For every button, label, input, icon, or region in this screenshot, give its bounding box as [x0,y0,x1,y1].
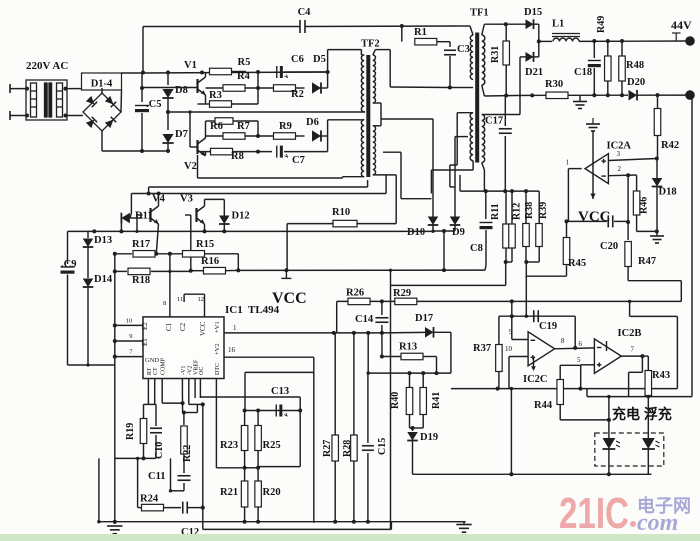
resistor R8 [211,148,233,155]
resistor R47 [625,242,632,267]
wire rail72 [122,72,144,74]
wire R1-C3 [437,41,450,43]
transformer TF2 core [366,55,370,177]
transformer TF2 secondary lower [373,126,376,175]
wire pin stub x195.1 [194,379,196,391]
wire R15 drop [237,254,239,271]
svg-text:R10: R10 [332,207,350,218]
wire R11 top [505,191,507,224]
wire top rail right [305,25,457,28]
junction [411,426,415,430]
svg-text:V1: V1 [184,60,197,71]
svg-text:R13: R13 [399,342,417,353]
wire DTC col [215,390,217,468]
wire gnd main stub [463,522,465,525]
wire IC2B pin5 [581,364,595,366]
junction [380,355,384,359]
wire D13 top [87,231,89,238]
wire R4-R2 [245,87,273,89]
resistor R19 [140,419,147,444]
svg-text:R45: R45 [568,258,586,269]
wire comp link [162,402,182,404]
wire R37 bottom [498,372,500,389]
svg-text:充电 浮充: 充电 浮充 [612,406,672,422]
junction [298,409,302,413]
wire col382 [381,333,383,357]
junction [366,520,370,524]
wire y458 [115,457,156,459]
wire box372 [245,371,314,373]
wire node TF2 bottom [327,120,329,152]
wire bridge bottom [101,131,103,151]
svg-text:C11: C11 [148,471,166,482]
wire V2 collector [205,121,207,138]
svg-text:R12: R12 [512,203,523,220]
junction [166,110,170,114]
wire R2-D5 [296,87,305,89]
wire rail388 [451,388,678,390]
wire C8 bottom [485,230,487,265]
svg-text:6: 6 [579,340,583,348]
diode D5 [312,82,321,93]
wire V4 collector up [158,194,160,207]
svg-text:R31: R31 [490,46,501,63]
svg-text:11: 11 [177,296,183,303]
terminal tick [672,33,681,41]
junction [135,230,138,233]
svg-text:D8: D8 [175,85,188,96]
svg-text:C20: C20 [600,241,618,252]
wire R48 top [621,41,623,56]
svg-text:D6: D6 [306,117,319,128]
svg-text:D17: D17 [415,313,433,324]
resistor R9 [274,133,296,140]
svg-text:R25: R25 [263,440,281,451]
wire D6 out [321,135,328,137]
wire D21 riser2 [538,41,540,57]
wire D21 out [534,56,539,58]
wire TF2 return 1 up [342,177,344,178]
wire [10,115,27,117]
wire bus193 [131,193,386,195]
svg-text:R42: R42 [661,140,679,151]
wire V1 collector [205,73,207,78]
wire C9 top [67,231,69,264]
wire zig5 drop [676,316,678,388]
wire y467 link [216,467,244,469]
wire C3 bottom [449,56,451,88]
svg-text:220V AC: 220V AC [26,60,68,72]
junction [157,192,161,196]
capacitor C8 [480,223,493,230]
svg-text:C6: C6 [291,54,304,65]
transformer TF1 core [475,33,479,163]
wire D5 out [321,87,328,89]
wire to L1 [539,40,552,42]
svg-text:R39: R39 [538,202,549,219]
wire pin9 [115,340,143,342]
svg-text:1: 1 [233,324,237,332]
wire R22 top [183,413,185,426]
junction [352,520,356,524]
svg-text:R8: R8 [231,151,244,162]
wire pin9 riser [511,316,513,339]
wire pin stub x148.4 [147,379,149,391]
wire V2 base stub [190,146,198,148]
wire R8 left [198,151,211,153]
junction [578,387,582,391]
wire D17 out [434,331,451,333]
wire V3 collector up [204,199,206,206]
wire R24 riser [137,458,139,507]
capacitor C12 [183,502,188,514]
wire V2 emitter down [197,155,199,178]
svg-text:12: 12 [198,296,205,303]
svg-text:TF1: TF1 [470,8,489,19]
wire R21 bottom [244,507,246,522]
wire D17 drop [450,332,452,373]
junction [380,299,384,303]
svg-text:R37: R37 [473,343,491,354]
wire R44 link [560,364,581,366]
wire top rail left [143,26,300,28]
svg-text:CT: CT [153,367,159,375]
wire R11 bottom [505,248,507,262]
wire R42 top [657,95,659,108]
wire R6 left [206,120,216,122]
capacitor C14 [375,318,388,323]
wire R11R12 join [506,261,512,263]
wire D10-D9 [433,230,455,232]
wire col511 down [510,389,512,475]
wire R38 top [525,191,527,224]
svg-text:L1: L1 [552,19,564,30]
svg-text:9: 9 [129,333,132,340]
resistor R38 [523,224,530,247]
wire D12 bottom [223,224,225,231]
diode D7 [162,134,173,143]
svg-text:V3: V3 [180,194,193,205]
dashed indicator box [595,433,664,466]
svg-text:R30: R30 [545,79,563,90]
wire R18 left [115,270,127,272]
wire R40 bottom [409,415,411,428]
junction [565,219,569,223]
resistor R30 [546,92,568,99]
wire V3 base stub [185,214,191,216]
wire pin stub x154.7 [154,379,156,391]
svg-text:D18: D18 [659,187,677,198]
svg-text:com: com [637,510,678,536]
junction [525,315,528,318]
resistor R10 [333,220,357,227]
wire V3 emitter drop [204,224,206,231]
wire out corner [642,355,648,357]
wire [102,150,142,152]
wire C5 bottom [141,113,143,151]
wire R49 bottom [607,81,609,95]
wire OC line [200,396,300,398]
wire D7 bottom [167,143,169,151]
wire out loop drop2 [628,372,630,396]
wire IC2B out [621,355,642,357]
svg-text:VCC: VCC [199,321,207,336]
wire pin stub x188.8 [188,379,190,391]
wire TF2 p1 stub [360,50,362,55]
wire R12 bottom [511,248,513,262]
svg-text:R48: R48 [626,60,644,71]
wire LED1 bottom [608,449,610,474]
bridge diode D2 [105,96,116,107]
wire pin10 drop [508,357,510,389]
wire D14 bottom [87,287,89,365]
wire R23-R21 [244,451,246,481]
svg-text:R5: R5 [238,57,251,68]
wire zig4 across [630,315,678,317]
wire TF1 p top [457,25,470,27]
wire [10,88,27,90]
capacitor C15 [362,446,374,451]
wire col526 [525,262,527,316]
wire R42 bottom [657,136,659,159]
resistor R13 [401,353,423,360]
svg-text:R19: R19 [125,423,136,440]
capacitor C6 [277,66,288,78]
wire D18 top [656,159,658,179]
junction [189,269,193,273]
wire R25 top [257,411,259,427]
wire VCC rail [238,269,485,271]
junction [97,520,100,523]
wire V2 base riser [189,112,191,147]
wire TF2 s1 stub [373,50,376,55]
wire pin11-12 [184,293,204,295]
diode D18 [652,178,663,187]
svg-text:D15: D15 [524,7,542,18]
transistor V1 [198,77,206,95]
wire zig2 [680,281,682,302]
wire 0V left [515,94,546,96]
wire c11 riser [170,458,172,490]
wire [142,150,168,152]
wire RT col [147,390,149,404]
transistor V4 [151,206,159,224]
resistor R6 [215,118,233,125]
junction [628,300,631,303]
transformer TF2 primary lower [361,120,364,177]
junction [574,347,576,349]
wire column313 [313,357,315,523]
wire R38R39 join [526,261,539,263]
wire TF1 s2 to D21 [484,114,520,116]
wire R6 down [257,121,259,136]
wire y467 extension [258,466,300,468]
svg-text:D21: D21 [525,67,543,78]
junction [530,93,534,97]
wire TF1 p top stub [470,26,473,35]
junction [509,472,513,476]
wire out loop drop [641,356,643,372]
svg-text:+V2: +V2 [214,343,221,355]
junction [92,229,96,233]
svg-text:.C5: .C5 [146,99,161,110]
svg-text:R18: R18 [132,275,150,286]
svg-text:R7: R7 [237,121,250,132]
transformer TF1 primary lower [470,113,473,161]
capacitor C17 [499,129,512,134]
junction [327,87,329,89]
wire pin C1 top [169,254,171,317]
wire D15 drop [538,24,540,41]
svg-text:IC2B: IC2B [618,328,642,339]
junction [524,260,528,264]
inductor L1 [553,38,579,41]
wire IC2C power pin [533,357,535,369]
wire TF1 s2 top stub [482,114,485,116]
wire col99 [98,458,100,521]
resistor R15 [183,251,205,257]
wire R18 right [151,270,191,272]
wire bus link [148,187,150,194]
wire column390 [390,270,392,529]
wire R39 bottom [538,246,540,262]
wire R13 right [423,356,437,358]
wire D12 top [223,199,225,215]
wire R41 bottom [422,415,424,428]
diode D15 [526,19,534,29]
svg-text:D19: D19 [420,432,438,443]
wire right edge column [691,95,693,397]
AC input terminal top [9,84,11,93]
svg-text:C3: C3 [457,44,470,55]
wire vref drop [196,404,198,412]
wire C11 bottom [183,483,185,491]
junction [256,70,260,74]
wire C15 top [367,373,369,443]
wire bridge right to box [120,90,123,112]
wire R19C10 bracket [144,403,157,405]
resistor R16 [204,267,226,274]
wire C10 bottom [155,435,157,458]
wire R8-C7 [233,151,272,153]
wire R1 drop [401,26,403,42]
svg-text:5: 5 [577,356,581,364]
junction [243,466,247,470]
wire R7-R9 [245,135,273,137]
bridge diode D4 [105,117,116,128]
diode D11 [121,213,129,224]
svg-text:C15: C15 [377,438,388,455]
wire R15 right [204,253,238,255]
wire D11 down [120,218,122,231]
wire VCC riser [443,231,445,270]
wire R16 left [191,270,204,272]
wire D15 out [534,23,539,25]
junction [222,229,226,233]
svg-text:E1: E1 [141,338,149,346]
resistor R12 [509,224,516,248]
svg-text:R29: R29 [393,288,411,299]
svg-text:D20: D20 [627,77,645,88]
ground 0V [573,102,587,109]
svg-text:V2: V2 [184,161,197,172]
junction [484,189,488,193]
junction [188,110,191,113]
capacitor C10 [150,428,162,433]
junction [113,323,117,327]
wire rail link [390,522,392,530]
junction [256,520,260,524]
wire R46 top [636,175,638,191]
junction [182,411,186,415]
op-amp IC2B [594,339,621,374]
wire R41 top [422,373,424,388]
bridge diode D1 [86,96,97,107]
wire R9-D6 [296,135,305,137]
junction [448,86,452,90]
wire y285 [391,284,506,286]
junction [154,252,158,256]
resistor R23 [241,426,248,451]
svg-text:R1: R1 [414,27,427,38]
wire TF2 s1 drop [389,50,391,87]
wire to TF2 primary lower [328,119,362,121]
wire R13 left [382,356,401,358]
resistor R31 [503,41,510,65]
wire R39 top [538,191,540,224]
junction [626,220,630,224]
wire rail474 [413,473,652,475]
svg-text:R9: R9 [279,121,292,132]
junction [326,70,330,74]
junction [64,87,68,91]
wire gnd to IC2A [592,131,594,154]
wire R49 top [607,41,609,56]
junction [620,39,624,43]
svg-text:D13: D13 [94,235,112,246]
junction [504,260,508,264]
junction [408,371,412,375]
terminal 44V plus [685,36,695,46]
wire pin stub x162.2 [161,379,163,391]
wire pin11 stub [183,294,185,302]
svg-text:E2: E2 [141,322,149,330]
svg-text:-V2: -V2 [187,366,193,375]
resistor R17 [133,251,155,257]
capacitor C4 [300,20,305,33]
svg-text:D7: D7 [175,129,188,140]
junction [537,39,541,43]
svg-text:C13: C13 [271,386,289,397]
resistor R27 [332,435,339,461]
wire D11-V4 [130,217,143,219]
capacitor C7 [277,146,288,158]
junction [166,149,170,153]
resistor R44 [557,380,564,405]
svg-text:R2: R2 [291,89,304,100]
svg-text:R6: R6 [210,121,223,132]
wire [66,115,84,117]
junction [400,24,404,28]
wire TF1 s2 bot stub [482,163,485,171]
junction [256,150,260,154]
wire TF1 s top stub [482,24,485,35]
wire R27 top [334,333,336,435]
wire to TF2 primary top [328,49,362,51]
wire pin stub x182.4 [181,379,183,391]
wire TF2 s1 bot stub [373,102,381,104]
wire -V2 col [188,390,190,404]
